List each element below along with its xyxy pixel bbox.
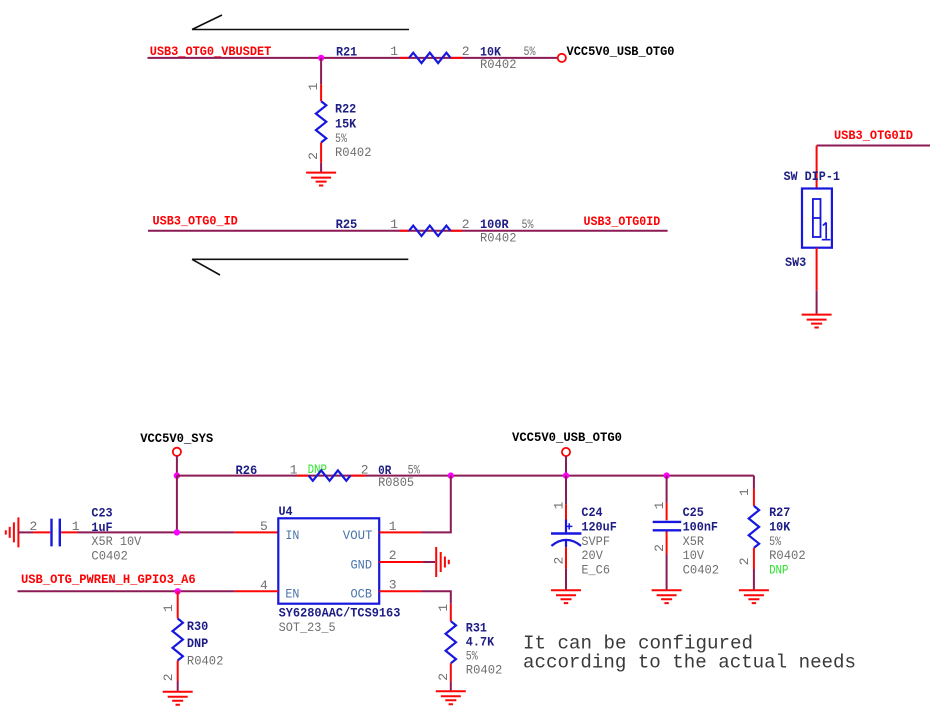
- svg-text:1: 1: [390, 217, 398, 232]
- svg-text:R22: R22: [335, 102, 356, 117]
- C24 pin 1 stub: [565, 504, 567, 519]
- U4 pin 3 stub: [379, 590, 421, 592]
- wire VCC5V0_USB_OTG0 drop: [565, 456, 567, 476]
- svg-text:USB_OTG_PWREN_H_GPIO3_A6: USB_OTG_PWREN_H_GPIO3_A6: [21, 572, 196, 587]
- svg-text:USB3_OTG0_VBUSDET: USB3_OTG0_VBUSDET: [150, 44, 272, 59]
- switch SW3 body: [802, 189, 832, 248]
- C23 pin 1 stub: [61, 531, 77, 533]
- svg-text:2: 2: [306, 152, 321, 160]
- wire bus corner to R27: [753, 476, 755, 489]
- junction C24: [563, 472, 569, 478]
- U4 pin 2 stub: [379, 561, 422, 563]
- wire VOUT to bus: [422, 476, 451, 533]
- svg-text:DNP: DNP: [187, 636, 209, 651]
- resistor R25 body: [400, 226, 463, 236]
- svg-text:C0402: C0402: [683, 563, 720, 578]
- resistor R31 body: [446, 621, 456, 663]
- svg-text:R0402: R0402: [769, 548, 806, 563]
- C23 pin 2 stub: [33, 531, 50, 533]
- wire bus to C25: [666, 476, 668, 503]
- svg-text:4: 4: [260, 578, 268, 593]
- C25 pin 2 stub: [666, 532, 668, 555]
- power port VCC5V0_USB_OTG0 terminal: [558, 54, 566, 62]
- wire GND pin to ground: [423, 561, 435, 563]
- resistor R27 body: [749, 506, 759, 548]
- junction at R22 tap: [318, 55, 324, 61]
- svg-text:1: 1: [552, 501, 567, 509]
- svg-text:C23: C23: [91, 505, 112, 520]
- wire ground to C23: [18, 531, 33, 533]
- svg-text:1: 1: [389, 519, 397, 534]
- ground left of C23: [6, 517, 19, 547]
- switch SW3 pin bottom stub: [816, 248, 818, 291]
- svg-text:GND: GND: [351, 557, 373, 572]
- junction R26 out: [448, 472, 454, 478]
- svg-text:C24: C24: [581, 505, 602, 520]
- svg-text:5%: 5%: [335, 131, 347, 146]
- power port VCC5V0_SYS terminal: [173, 448, 181, 456]
- svg-text:2: 2: [161, 673, 176, 681]
- ground below SW3: [802, 315, 832, 328]
- wire to switch: [817, 145, 930, 147]
- wire junction to R22: [320, 58, 322, 84]
- svg-text:100nF: 100nF: [683, 519, 719, 534]
- svg-text:USB3_OTG0ID: USB3_OTG0ID: [834, 128, 913, 143]
- svg-text:10K: 10K: [769, 519, 790, 534]
- ground below C25: [652, 590, 682, 603]
- capacitor C25 body: [653, 522, 682, 530]
- svg-text:R30: R30: [187, 619, 209, 634]
- svg-text:SVPF: SVPF: [581, 534, 610, 549]
- R30 pin 2 stub: [177, 661, 179, 682]
- svg-text:SOT_23_5: SOT_23_5: [279, 620, 336, 635]
- svg-text:2: 2: [737, 557, 752, 565]
- svg-text:VOUT: VOUT: [343, 528, 373, 543]
- wire R22 to ground: [320, 163, 322, 172]
- wire USB3_OTG0_ID row: [148, 230, 668, 232]
- svg-text:1: 1: [306, 83, 321, 91]
- resistor R26 body: [297, 470, 366, 480]
- R27 pin 1 stub: [753, 489, 755, 506]
- resistor R21 body: [400, 53, 463, 63]
- svg-text:1: 1: [161, 604, 176, 612]
- wire OCB to R31: [422, 591, 451, 604]
- svg-text:R0402: R0402: [187, 654, 224, 669]
- svg-text:R0402: R0402: [335, 145, 372, 160]
- wire bus to C24: [565, 476, 567, 505]
- R22 pin 2 stub: [320, 143, 322, 163]
- junction C25: [663, 472, 669, 478]
- svg-text:X5R 10V: X5R 10V: [91, 534, 141, 549]
- C25 pin 1 stub: [666, 503, 668, 520]
- R22 pin 1 stub: [320, 84, 322, 101]
- svg-text:R26: R26: [236, 463, 258, 478]
- svg-text:R25: R25: [336, 217, 358, 232]
- svg-text:1: 1: [390, 44, 398, 59]
- annotation arrow bottom: [192, 259, 408, 275]
- wire switch to ground: [816, 291, 818, 314]
- svg-text:SY6280AAC/TCS9163: SY6280AAC/TCS9163: [279, 606, 401, 621]
- wire C24 to ground: [565, 569, 567, 590]
- junction VCC5V0_SYS bus: [174, 472, 180, 478]
- svg-text:1: 1: [652, 501, 667, 509]
- svg-text:2: 2: [462, 217, 470, 232]
- svg-text:DNP: DNP: [769, 563, 789, 578]
- svg-text:according to the actual needs: according to the actual needs: [523, 651, 856, 673]
- svg-text:5%: 5%: [769, 534, 781, 549]
- svg-text:R0402: R0402: [480, 231, 517, 246]
- C24 pin 2 stub: [565, 547, 567, 568]
- junction C23 row: [174, 529, 180, 535]
- ground below R27: [739, 590, 769, 603]
- resistor R30 body: [173, 619, 183, 661]
- wire VCC5V0_SYS to C23 row: [176, 476, 178, 533]
- op-amp U4 body: [278, 518, 379, 603]
- svg-text:20V: 20V: [581, 548, 603, 563]
- svg-text:1: 1: [290, 463, 298, 478]
- wire USB3_OTG0_VBUSDET row: [148, 57, 558, 59]
- svg-text:2: 2: [436, 673, 451, 681]
- svg-text:2: 2: [652, 544, 667, 552]
- svg-text:1: 1: [737, 488, 752, 496]
- svg-text:R21: R21: [336, 44, 357, 59]
- svg-text:IN: IN: [285, 528, 299, 543]
- U4 pin 1 stub: [379, 531, 421, 533]
- svg-text:VCC5V0_SYS: VCC5V0_SYS: [140, 431, 213, 446]
- svg-text:R31: R31: [466, 621, 487, 636]
- svg-text:3: 3: [389, 578, 397, 593]
- svg-text:R0402: R0402: [480, 57, 517, 72]
- svg-text:5%: 5%: [522, 217, 534, 232]
- svg-text:4.7K: 4.7K: [466, 635, 495, 650]
- R27 pin 2 stub: [753, 548, 755, 569]
- svg-text:10V: 10V: [683, 548, 705, 563]
- svg-text:2: 2: [30, 519, 38, 534]
- svg-text:VCC5V0_USB_OTG0: VCC5V0_USB_OTG0: [512, 430, 622, 445]
- wire C25 to ground: [666, 554, 668, 589]
- svg-text:R0805: R0805: [378, 475, 414, 490]
- svg-text:5%: 5%: [524, 44, 536, 59]
- svg-text:C0402: C0402: [91, 549, 128, 564]
- wire USB_OTG_PWREN row: [18, 590, 235, 592]
- svg-text:15K: 15K: [335, 116, 356, 131]
- svg-text:SW3: SW3: [785, 255, 806, 270]
- R31 pin 2 stub: [450, 663, 452, 681]
- svg-text:2: 2: [462, 44, 470, 59]
- power port VCC5V0_USB_OTG0 terminal bottom: [562, 448, 570, 456]
- svg-text:2: 2: [389, 548, 397, 563]
- svg-text:SW DIP-1: SW DIP-1: [784, 169, 841, 184]
- ground below R31: [436, 691, 466, 704]
- svg-text:C25: C25: [683, 505, 704, 520]
- svg-text:OCB: OCB: [351, 587, 373, 602]
- wire C23 to U4 IN: [78, 531, 235, 533]
- svg-text:U4: U4: [279, 504, 293, 519]
- svg-text:5%: 5%: [466, 648, 478, 663]
- svg-text:E_C6: E_C6: [581, 563, 610, 578]
- U4 pin 5 stub: [235, 531, 279, 533]
- wire R30 to ground: [177, 681, 179, 691]
- R31 pin 1 stub: [450, 604, 452, 621]
- U4 pin 4 stub: [235, 590, 279, 592]
- svg-text:USB3_OTG0_ID: USB3_OTG0_ID: [153, 213, 238, 228]
- annotation arrow top: [192, 15, 409, 30]
- resistor R22 body: [316, 101, 326, 142]
- R30 pin 1 stub: [177, 591, 179, 618]
- wire R27 to ground: [753, 569, 755, 589]
- ground below R22: [306, 173, 336, 186]
- svg-text:5: 5: [260, 519, 268, 534]
- svg-text:USB3_OTG0ID: USB3_OTG0ID: [584, 214, 661, 229]
- switch SW3 pin top stub: [816, 146, 818, 189]
- ground below C24: [551, 590, 581, 603]
- capacitor C23 body: [52, 519, 60, 547]
- svg-text:VCC5V0_USB_OTG0: VCC5V0_USB_OTG0: [567, 44, 675, 59]
- svg-text:120uF: 120uF: [581, 519, 617, 534]
- svg-text:1: 1: [436, 604, 451, 612]
- ground right of U4: [436, 547, 449, 577]
- ground below R30: [163, 692, 193, 705]
- junction PWREN R30: [175, 588, 181, 594]
- svg-text:2: 2: [552, 557, 567, 565]
- svg-text:R27: R27: [769, 505, 790, 520]
- wire VCC5V0_SYS drop: [176, 456, 178, 476]
- capacitor C24 body polarized: [551, 520, 581, 548]
- wire R31 to ground: [450, 682, 452, 691]
- svg-text:X5R: X5R: [683, 534, 705, 549]
- svg-text:EN: EN: [285, 587, 299, 602]
- svg-text:R0402: R0402: [466, 663, 503, 678]
- wire power bus row: [177, 475, 754, 477]
